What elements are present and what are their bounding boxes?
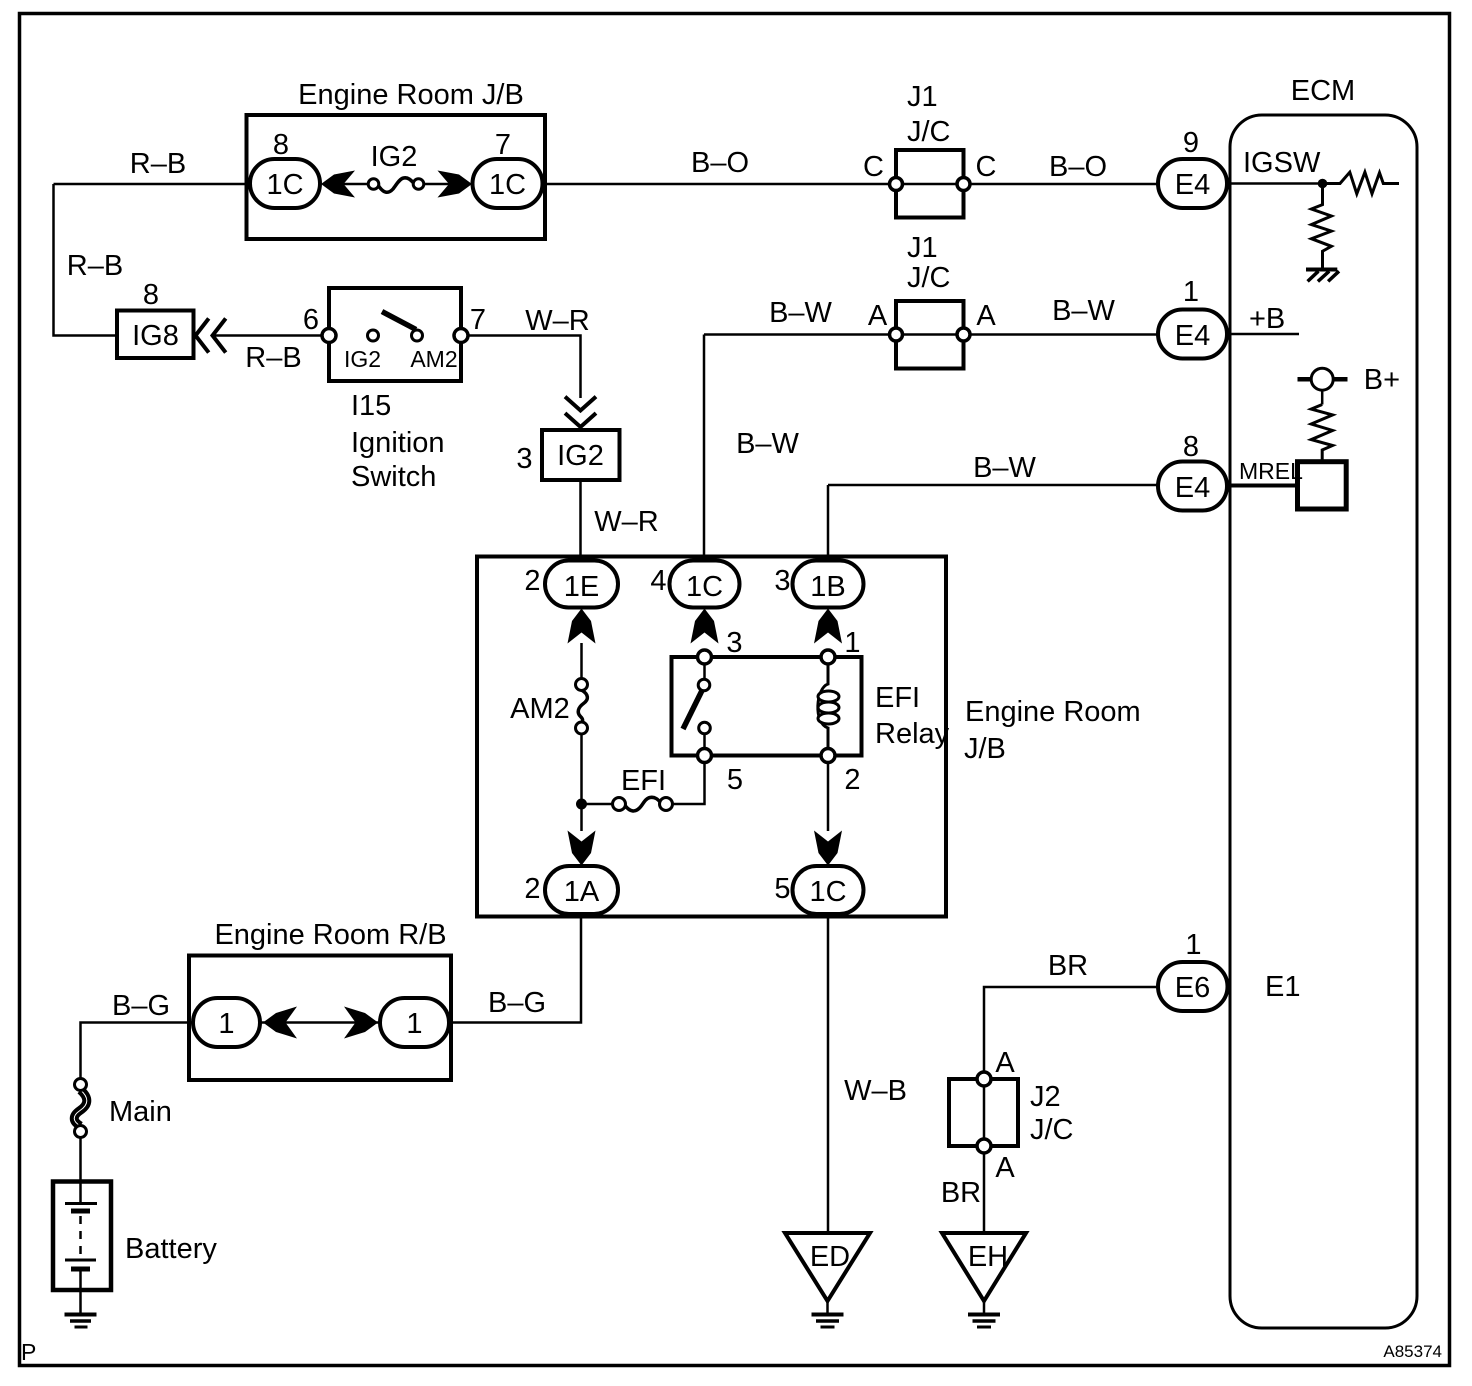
- svg-text:BR: BR: [941, 1177, 981, 1209]
- connector 1C pin 4: [670, 561, 740, 608]
- svg-text:J2: J2: [1030, 1081, 1061, 1113]
- wire B-O row: [543, 183, 1158, 186]
- svg-text:1E: 1E: [564, 571, 599, 603]
- svg-text:J/B: J/B: [964, 733, 1006, 765]
- chevron arrows to IG8: [196, 320, 208, 351]
- svg-text:AM2: AM2: [510, 693, 570, 725]
- svg-text:IG8: IG8: [132, 320, 179, 352]
- svg-text:Engine Room R/B: Engine Room R/B: [214, 919, 446, 951]
- svg-text:1: 1: [406, 1008, 422, 1040]
- svg-text:E4: E4: [1175, 320, 1210, 352]
- svg-text:A: A: [995, 1152, 1015, 1184]
- wire B+ to resistor: [1321, 390, 1324, 404]
- connector 1 left: [193, 998, 260, 1047]
- svg-text:1C: 1C: [809, 876, 846, 908]
- wire AM2 to 1A: [580, 734, 583, 831]
- wire relay pin2 to 1C: [827, 762, 830, 831]
- chevron arrows down W-R: [567, 398, 595, 411]
- relay lever: [683, 691, 702, 730]
- svg-text:2: 2: [844, 764, 860, 796]
- arrow left: [263, 1007, 297, 1039]
- svg-text:ECM: ECM: [1291, 75, 1355, 107]
- relay contact circles: [698, 679, 710, 691]
- thin link line: [260, 1021, 380, 1024]
- relay pin 3: [698, 650, 712, 664]
- connector 1C pin 8: [250, 159, 320, 208]
- svg-text:EFI: EFI: [875, 682, 920, 714]
- svg-text:J/C: J/C: [907, 262, 951, 294]
- arrow down 1A: [568, 831, 596, 866]
- svg-text:3: 3: [726, 627, 742, 659]
- svg-text:8: 8: [1183, 431, 1199, 463]
- wire B-W row: [704, 333, 1158, 336]
- wire Main to battery: [79, 1138, 82, 1203]
- wire R-B top row: [54, 183, 251, 186]
- svg-text:E4: E4: [1175, 169, 1210, 201]
- svg-text:J1: J1: [907, 232, 938, 264]
- svg-text:IGSW: IGSW: [1243, 147, 1321, 179]
- arrow up 1B: [814, 609, 842, 644]
- svg-text:3: 3: [774, 565, 790, 597]
- wire W-R: [468, 336, 581, 399]
- svg-text:4: 4: [650, 565, 666, 597]
- svg-text:B–G: B–G: [488, 987, 546, 1019]
- svg-text:Engine Room: Engine Room: [965, 696, 1141, 728]
- svg-text:1: 1: [1185, 929, 1201, 961]
- svg-text:5: 5: [727, 764, 743, 796]
- svg-text:Battery: Battery: [125, 1233, 217, 1265]
- connector E4 pin 1: [1158, 310, 1227, 359]
- svg-text:ED: ED: [810, 1241, 850, 1273]
- svg-text:A: A: [976, 300, 996, 332]
- relay pin 1: [821, 650, 835, 664]
- svg-text:R–B: R–B: [67, 250, 123, 282]
- svg-text:IG2: IG2: [557, 440, 604, 472]
- wire BR: [984, 987, 1158, 1073]
- wire to EFI fuse: [582, 803, 614, 806]
- switch lever: [382, 312, 416, 330]
- wire R-B left vertical: [54, 184, 118, 336]
- svg-text:1B: 1B: [810, 571, 845, 603]
- svg-text:3: 3: [516, 443, 532, 475]
- wire B-G right to 1A: [449, 917, 581, 1023]
- wire R-B to IG8 chevrons: [214, 334, 329, 337]
- svg-text:B–W: B–W: [1052, 295, 1115, 327]
- svg-text:IG2: IG2: [344, 346, 381, 372]
- connector 1C pin 5: [793, 866, 864, 914]
- wire MREL vertical to 1B: [827, 485, 830, 558]
- svg-text:2: 2: [524, 565, 540, 597]
- wire 1E to AM2 fuse: [580, 643, 583, 679]
- node junction dot: [1318, 179, 1328, 189]
- node junction dot: [576, 799, 587, 810]
- svg-text:EH: EH: [968, 1241, 1008, 1273]
- ground hatch EH: [968, 1313, 1000, 1317]
- svg-text:B–W: B–W: [973, 452, 1036, 484]
- battery: [53, 1182, 111, 1291]
- svg-text:A85374: A85374: [1383, 1342, 1442, 1361]
- svg-text:BR: BR: [1048, 950, 1088, 982]
- connector 1A pin 2: [545, 866, 618, 914]
- svg-text:2: 2: [524, 873, 540, 905]
- svg-text:R–B: R–B: [245, 342, 301, 374]
- fusible link Main: [74, 1090, 87, 1126]
- svg-text:1A: 1A: [564, 876, 600, 908]
- ground hatch ED: [812, 1313, 844, 1317]
- wire BR to EH: [983, 1153, 986, 1233]
- connector 1E pin 2: [545, 561, 618, 608]
- resistor vertical IGSW: [1311, 188, 1331, 268]
- svg-text:AM2: AM2: [410, 346, 457, 372]
- arrow up 1E: [568, 609, 596, 644]
- svg-text:1: 1: [218, 1008, 234, 1040]
- svg-text:6: 6: [303, 304, 319, 336]
- arrow right: [438, 171, 473, 198]
- svg-text:IG2: IG2: [371, 141, 418, 173]
- svg-text:+B: +B: [1249, 303, 1285, 335]
- svg-text:B–G: B–G: [112, 990, 170, 1022]
- ground triangle EH: [942, 1233, 1026, 1301]
- svg-text:Switch: Switch: [351, 461, 436, 493]
- driver box MREL: [1298, 462, 1347, 509]
- relay pin 5: [698, 749, 712, 763]
- svg-text:7: 7: [495, 129, 511, 161]
- ground battery: [65, 1313, 97, 1317]
- ground chassis IGSW: [1306, 268, 1337, 272]
- connector E4 pin 8: [1158, 462, 1227, 511]
- svg-text:R–B: R–B: [130, 148, 186, 180]
- pin 7: [454, 329, 468, 343]
- resistor horizontal IGSW: [1327, 172, 1399, 194]
- svg-text:W–B: W–B: [844, 1075, 907, 1107]
- relay pin 2: [821, 749, 835, 763]
- connector 1 right: [380, 998, 449, 1047]
- svg-text:Engine Room J/B: Engine Room J/B: [298, 79, 524, 111]
- connector IG2 pin 3: [542, 430, 620, 480]
- svg-text:P: P: [21, 1339, 36, 1365]
- wire inside J2 J/C: [983, 1079, 986, 1146]
- svg-text:B–O: B–O: [691, 147, 749, 179]
- pin 6: [322, 329, 336, 343]
- svg-text:E1: E1: [1265, 971, 1300, 1003]
- arrow up 1C: [691, 609, 719, 644]
- wire inside J1 J/C: [896, 183, 964, 186]
- svg-text:J/C: J/C: [907, 116, 951, 148]
- svg-text:B–W: B–W: [736, 428, 799, 460]
- relay EFI box: [672, 657, 862, 756]
- junction block Engine Room J/B (center): [477, 557, 946, 917]
- svg-text:Relay: Relay: [875, 718, 950, 750]
- svg-text:C: C: [976, 151, 997, 183]
- svg-text:EFI: EFI: [621, 765, 666, 797]
- svg-text:W–R: W–R: [594, 506, 658, 538]
- ignition switch I15: [329, 288, 461, 381]
- wire E4 to MREL box: [1227, 484, 1298, 488]
- svg-text:9: 9: [1183, 127, 1199, 159]
- fuse AM2: [578, 690, 587, 723]
- connector 1B pin 3: [793, 561, 864, 608]
- wire W-B: [827, 917, 830, 1234]
- svg-text:B–W: B–W: [769, 297, 832, 329]
- wire W-R to J/B: [579, 480, 582, 561]
- svg-text:7: 7: [470, 304, 486, 336]
- connector IG8 pin 8: [117, 311, 194, 359]
- wire B-W vertical to 1C: [703, 335, 706, 559]
- svg-text:J/C: J/C: [1030, 1114, 1074, 1146]
- connector E6 pin 1: [1158, 962, 1228, 1011]
- svg-text:8: 8: [273, 129, 289, 161]
- wire EFI fuse to relay pin 5: [672, 762, 705, 804]
- svg-text:1C: 1C: [266, 169, 303, 201]
- svg-text:W–R: W–R: [525, 305, 589, 337]
- svg-text:A: A: [868, 300, 888, 332]
- wire B-G left: [81, 1023, 194, 1080]
- connector E4 pin 9: [1158, 159, 1227, 208]
- arrow right: [344, 1007, 378, 1039]
- svg-text:C: C: [863, 151, 884, 183]
- arrow down 1C: [814, 831, 842, 866]
- wire IGSW: [1227, 182, 1322, 185]
- svg-text:MREL: MREL: [1239, 458, 1303, 484]
- svg-text:Main: Main: [109, 1096, 172, 1128]
- svg-text:E4: E4: [1175, 472, 1210, 504]
- switch contacts: [368, 330, 379, 341]
- wire MREL row: [828, 484, 1158, 487]
- svg-text:5: 5: [774, 873, 790, 905]
- battery positive B+: [1298, 377, 1348, 382]
- svg-text:1: 1: [1183, 276, 1199, 308]
- fuse EFI: [625, 797, 661, 811]
- wire inside J1 J/C: [896, 333, 964, 336]
- resistor vertical MREL: [1311, 405, 1332, 462]
- svg-text:E6: E6: [1175, 972, 1210, 1004]
- wire +B: [1227, 333, 1299, 336]
- relay coil: [818, 664, 828, 756]
- svg-text:B+: B+: [1364, 364, 1400, 396]
- connector 1C pin 7: [473, 159, 543, 208]
- arrow left: [321, 171, 355, 198]
- svg-text:J1: J1: [907, 81, 938, 113]
- junction connector J2 J/C: [949, 1079, 1018, 1146]
- svg-text:Ignition: Ignition: [351, 427, 445, 459]
- svg-text:B–O: B–O: [1049, 151, 1107, 183]
- svg-text:1: 1: [844, 627, 860, 659]
- svg-text:8: 8: [143, 279, 159, 311]
- ground triangle ED: [785, 1233, 870, 1301]
- svg-text:1C: 1C: [489, 169, 526, 201]
- svg-text:1C: 1C: [686, 571, 723, 603]
- svg-text:I15: I15: [351, 390, 391, 422]
- svg-text:A: A: [995, 1047, 1015, 1079]
- relay contact wire: [703, 657, 706, 680]
